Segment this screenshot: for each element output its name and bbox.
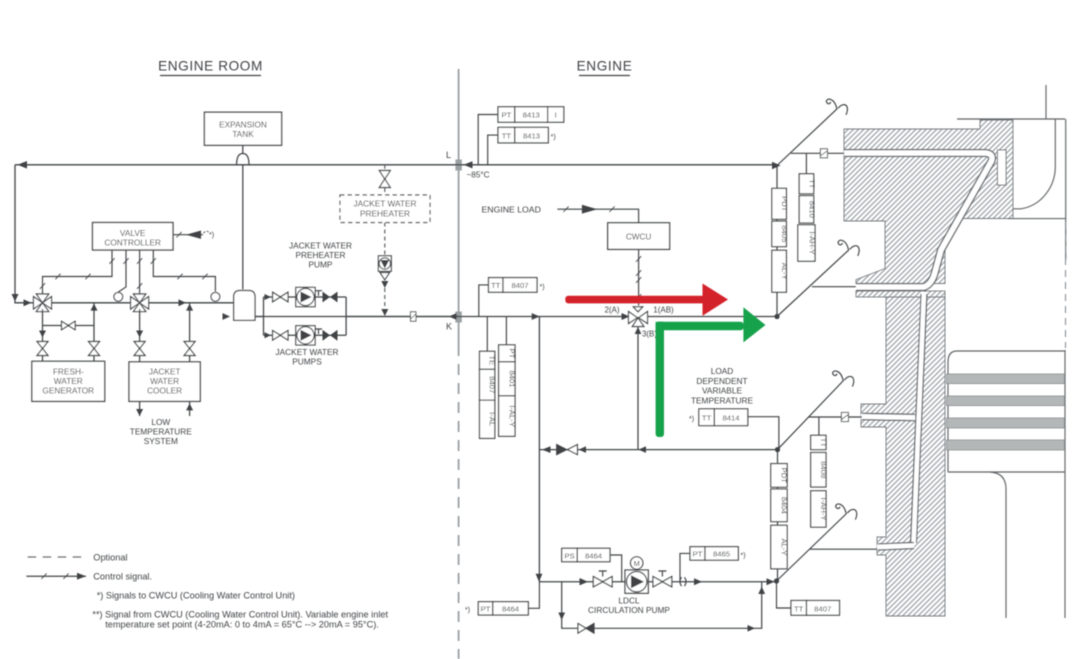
svg-text:TT: TT: [807, 179, 816, 189]
svg-text:PUMPS: PUMPS: [292, 357, 322, 367]
svg-text:JACKET WATER: JACKET WATER: [289, 241, 352, 251]
svg-text:8405: 8405: [780, 225, 789, 242]
svg-text:8407: 8407: [814, 604, 831, 613]
svg-text:I-AH-Y: I-AH-Y: [807, 231, 816, 254]
svg-text:CONTROLLER: CONTROLLER: [104, 238, 161, 248]
svg-text:TT: TT: [502, 131, 512, 140]
svg-text:TEMPERATURE: TEMPERATURE: [691, 395, 754, 405]
svg-text:JACKET: JACKET: [149, 367, 181, 377]
svg-text:LOAD: LOAD: [711, 366, 734, 376]
svg-text:8414: 8414: [722, 414, 740, 423]
svg-text:8404: 8404: [780, 497, 789, 515]
svg-text:I-AL-Y: I-AL-Y: [507, 405, 516, 427]
svg-text:Optional: Optional: [93, 553, 127, 563]
svg-text:COOLER: COOLER: [147, 386, 182, 396]
svg-text:2(A): 2(A): [604, 306, 619, 315]
svg-text:I-AH-Y: I-AH-Y: [819, 497, 828, 520]
svg-text:8413: 8413: [523, 111, 540, 120]
svg-text:8464: 8464: [585, 551, 603, 560]
svg-text:3(B): 3(B): [642, 330, 657, 339]
svg-text:CWCU: CWCU: [626, 233, 652, 242]
svg-text:GENERATOR: GENERATOR: [42, 386, 94, 396]
svg-text:**) Signal from CWCU (Cooling: **) Signal from CWCU (Cooling Water Cont…: [92, 610, 388, 620]
svg-text:8464: 8464: [502, 605, 520, 614]
svg-text:*): *): [540, 284, 545, 291]
svg-text:8407: 8407: [488, 376, 497, 393]
svg-text:K: K: [446, 322, 452, 332]
svg-text:PDT: PDT: [780, 468, 789, 484]
svg-text:PT: PT: [501, 111, 511, 120]
svg-text:TEMPERATURE: TEMPERATURE: [130, 427, 193, 437]
svg-text:AL-Y: AL-Y: [780, 538, 789, 555]
svg-text:JACKET WATER: JACKET WATER: [354, 199, 417, 209]
svg-text:*): *): [209, 230, 214, 239]
svg-text:TT: TT: [491, 281, 501, 290]
svg-text:*) Signals to CWCU (Cooling Wa: *) Signals to CWCU (Cooling Water Contro…: [97, 591, 295, 601]
svg-text:8413: 8413: [523, 131, 540, 140]
svg-text:EXPANSION: EXPANSION: [219, 120, 267, 130]
svg-text:M: M: [634, 559, 640, 568]
svg-text:PT: PT: [693, 550, 703, 559]
svg-text:TE: TE: [488, 355, 497, 365]
svg-text:I: I: [555, 111, 557, 120]
svg-text:WATER: WATER: [150, 376, 179, 386]
svg-text:*): *): [551, 134, 556, 141]
svg-text:Control signal.: Control signal.: [93, 572, 152, 582]
svg-text:*): *): [741, 553, 746, 560]
svg-text:TT: TT: [702, 414, 712, 423]
svg-text:VARIABLE: VARIABLE: [702, 386, 742, 396]
svg-text:PT: PT: [507, 348, 516, 358]
svg-text:ENGINE: ENGINE: [577, 59, 633, 74]
svg-text:PREHEATER: PREHEATER: [360, 209, 410, 219]
svg-text:AL-Y: AL-Y: [780, 263, 789, 280]
svg-text:CIRCULATION PUMP: CIRCULATION PUMP: [588, 605, 670, 615]
svg-text:PUMP: PUMP: [309, 260, 333, 270]
svg-text:FRESH-: FRESH-: [53, 367, 84, 377]
svg-text:8410: 8410: [807, 201, 816, 218]
svg-text:LOW: LOW: [151, 417, 170, 427]
svg-text:PREHEATER: PREHEATER: [295, 250, 345, 260]
svg-text:I-AL: I-AL: [488, 412, 497, 427]
svg-text:SYSTEM: SYSTEM: [144, 436, 178, 446]
svg-text:PT: PT: [481, 605, 491, 614]
svg-text:1(AB): 1(AB): [653, 306, 674, 315]
svg-text:8465: 8465: [713, 550, 730, 559]
svg-text:L: L: [446, 150, 451, 160]
svg-text:LDCL: LDCL: [618, 596, 640, 606]
svg-text:TT: TT: [794, 604, 804, 613]
svg-text:8401: 8401: [507, 370, 516, 387]
svg-text:*): *): [465, 607, 470, 614]
svg-text:ENGINE LOAD: ENGINE LOAD: [482, 204, 541, 214]
svg-text:ENGINE ROOM: ENGINE ROOM: [158, 59, 263, 74]
svg-text:~85°C: ~85°C: [467, 171, 490, 180]
svg-text:8407: 8407: [511, 281, 528, 290]
svg-text:DEPENDENT: DEPENDENT: [696, 376, 747, 386]
svg-text:WATER: WATER: [54, 376, 83, 386]
svg-text:JACKET WATER: JACKET WATER: [276, 347, 339, 357]
svg-text:8408: 8408: [819, 461, 828, 478]
svg-text:*): *): [689, 416, 694, 423]
svg-text:temperature set point (4-20mA:: temperature set point (4-20mA: 0 to 4mA …: [105, 620, 379, 630]
svg-text:TT: TT: [819, 438, 828, 448]
svg-text:PS: PS: [564, 551, 574, 560]
svg-text:VALVE: VALVE: [120, 228, 146, 238]
svg-text:PDT: PDT: [780, 196, 789, 212]
svg-text:TANK: TANK: [232, 129, 254, 139]
